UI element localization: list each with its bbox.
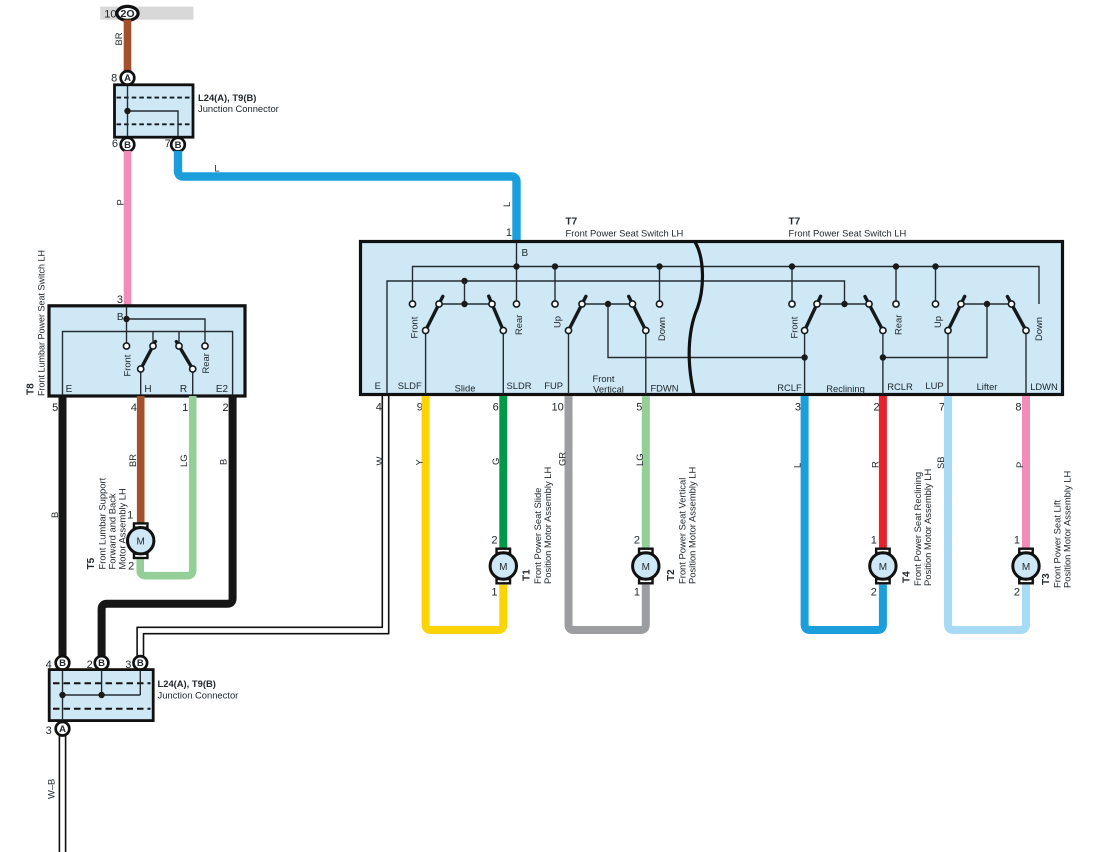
wire B entry drop (516, 243, 518, 304)
svg-text:G: G (490, 458, 501, 465)
svg-text:Front: Front (122, 354, 133, 376)
wire bus1 drops (554, 267, 556, 305)
wire B (black) T8 E2 to junction 2B (102, 396, 233, 656)
svg-text:T2: T2 (666, 569, 677, 581)
svg-text:2: 2 (634, 535, 640, 547)
svg-text:Up: Up (932, 316, 943, 328)
svg-text:FUP: FUP (544, 380, 563, 391)
svg-text:W–B: W–B (46, 779, 57, 799)
svg-text:4: 4 (131, 402, 137, 414)
wire SB (sky blue) T7 LUP to motor T3 pin 2 (948, 396, 1026, 630)
svg-text:P: P (1014, 462, 1025, 468)
switch T8 Front Lumbar Power Seat Switch LH (49, 306, 245, 396)
svg-text:Junction Connector: Junction Connector (198, 103, 279, 114)
svg-text:10: 10 (552, 402, 564, 414)
svg-text:B: B (49, 512, 60, 518)
svg-text:L: L (214, 163, 219, 174)
svg-text:RCLF: RCLF (777, 382, 802, 393)
wire rear switch left leg (178, 332, 180, 343)
svg-text:E: E (375, 380, 381, 391)
wire P (pink) from 6B to T8 pin 3 (124, 151, 132, 306)
svg-text:LG: LG (178, 454, 189, 467)
svg-text:1: 1 (506, 227, 512, 239)
svg-text:SLDF: SLDF (398, 380, 422, 391)
wire LG (light green) T7 FDWN to motor T2 pin 2 (642, 396, 650, 548)
svg-text:2O: 2O (120, 8, 134, 20)
svg-text:3: 3 (46, 725, 52, 737)
svg-text:LDWN: LDWN (1030, 381, 1058, 392)
svg-text:M: M (137, 537, 145, 548)
contact circles (123, 343, 129, 349)
svg-text:Y: Y (414, 459, 425, 466)
junction connector U1 L24(A),T9(B) (115, 85, 194, 137)
svg-text:6: 6 (493, 402, 499, 414)
switch Lifter (932, 296, 1044, 394)
svg-text:Reclining: Reclining (826, 383, 865, 394)
svg-text:6: 6 (112, 138, 118, 150)
svg-text:R: R (870, 461, 881, 468)
wire E bus E to E2 (63, 332, 233, 396)
pin 2B terminal circle (95, 656, 109, 670)
svg-text:A: A (124, 73, 131, 84)
svg-text:2: 2 (873, 402, 879, 414)
junction connector U2 L24(A),T9(B) (49, 670, 153, 721)
svg-text:3: 3 (795, 402, 801, 414)
svg-text:5: 5 (636, 402, 642, 414)
pin 4B terminal circle (56, 656, 70, 670)
svg-text:M: M (642, 562, 650, 573)
svg-text:Rear: Rear (200, 353, 211, 373)
wire BR (brown) T8 H to motor T5 pin 1 (137, 396, 145, 523)
svg-text:SLDR: SLDR (506, 380, 531, 391)
wire B entry to front contact (126, 307, 128, 343)
wire branch B to rear switch (127, 319, 206, 343)
pin A terminal circle (121, 71, 135, 85)
switch Front Vertical (552, 296, 805, 394)
wire Y (yellow) T7 SLDF to motor T1 pin 1 (426, 396, 504, 630)
svg-text:L24(A), T9(B): L24(A), T9(B) (158, 678, 216, 689)
svg-text:Down: Down (656, 317, 667, 341)
wire W (white) T7 E to junction 3B (137, 396, 389, 657)
svg-text:Lifter: Lifter (977, 381, 998, 392)
svg-text:B: B (218, 459, 229, 465)
svg-text:Front: Front (789, 316, 800, 338)
svg-text:Position Motor Assembly LH: Position Motor Assembly LH (687, 467, 698, 584)
svg-text:B: B (175, 140, 182, 151)
svg-text:2: 2 (1014, 587, 1020, 599)
connector 2O (117, 6, 138, 20)
svg-text:Position Motor Assembly LH: Position Motor Assembly LH (542, 467, 553, 584)
switch Slide (409, 296, 525, 394)
wire bus1 B feed (413, 267, 1040, 305)
svg-text:Rear: Rear (893, 315, 904, 335)
svg-text:2: 2 (491, 535, 497, 547)
svg-text:T1: T1 (522, 569, 533, 581)
svg-text:FDWN: FDWN (650, 383, 678, 394)
wire R (red) T7 RCLR to motor T4 pin 1 (879, 396, 887, 548)
motor T3 Front Power Seat Lift Position Motor (1013, 549, 1039, 584)
pin 7B terminal circle (171, 138, 185, 152)
svg-text:T7: T7 (789, 217, 801, 228)
wire W-B (white-black) from 3A down (59, 735, 65, 852)
pin 3B terminal circle (134, 656, 148, 670)
svg-text:M: M (1022, 562, 1030, 573)
bus2 dot at slide (461, 278, 467, 284)
pin 3A terminal circle (56, 722, 70, 736)
svg-text:BR: BR (113, 32, 124, 45)
svg-text:LUP: LUP (925, 380, 943, 391)
wire bus2 E feed (387, 281, 845, 394)
svg-text:SB: SB (935, 456, 946, 469)
svg-text:2: 2 (222, 402, 228, 414)
svg-text:Front Power Seat Switch LH: Front Power Seat Switch LH (566, 228, 684, 239)
svg-text:3: 3 (117, 294, 123, 306)
svg-text:Up: Up (552, 316, 563, 328)
svg-text:1: 1 (634, 587, 640, 599)
svg-text:M: M (879, 562, 887, 573)
svg-text:E2: E2 (216, 384, 229, 395)
svg-text:5: 5 (52, 402, 58, 414)
svg-text:H: H (144, 384, 151, 395)
wire L (blue) T7 RCLF to motor T4 pin 2 (805, 396, 883, 630)
svg-text:RCLR: RCLR (887, 381, 913, 392)
svg-text:L24(A), T9(B): L24(A), T9(B) (198, 92, 256, 103)
svg-text:R: R (180, 384, 187, 395)
svg-text:T7: T7 (566, 217, 578, 228)
svg-text:T3: T3 (1041, 573, 1052, 585)
wire GR (gray) T7 FUP to motor T2 pin 1 (569, 396, 646, 630)
svg-text:1: 1 (871, 535, 877, 547)
svg-text:Slide: Slide (455, 383, 476, 394)
wire L (blue) from 7B to T7 pin 1 (178, 151, 517, 243)
svg-text:A: A (59, 724, 66, 735)
svg-text:2: 2 (871, 587, 877, 599)
pin 6B terminal circle (121, 138, 135, 152)
svg-text:L: L (792, 463, 803, 468)
svg-text:GR: GR (557, 452, 568, 466)
svg-text:L: L (501, 202, 512, 207)
wire R output leg (192, 373, 194, 396)
svg-text:E: E (66, 384, 73, 395)
svg-text:Front: Front (409, 316, 420, 338)
svg-text:BR: BR (127, 454, 138, 467)
break squiggle (689, 242, 702, 394)
svg-text:B: B (98, 658, 105, 669)
svg-text:T5: T5 (86, 557, 97, 569)
motor T1 Front Power Seat Slide Position Motor (490, 549, 516, 584)
bus1 junction dots (513, 263, 519, 269)
svg-text:Motor Assembly LH: Motor Assembly LH (117, 488, 128, 569)
svg-text:Rear: Rear (513, 315, 524, 335)
motor T4 Front Power Seat Reclining Position Motor (870, 549, 896, 584)
svg-text:Position Motor Assembly LH: Position Motor Assembly LH (922, 469, 933, 586)
svg-text:B: B (522, 248, 529, 259)
svg-text:P: P (115, 199, 126, 205)
wire H output leg (140, 373, 142, 396)
svg-text:T8: T8 (26, 383, 37, 395)
wire P (pink) T7 LDWN to motor T3 pin 1 (1022, 396, 1030, 548)
svg-text:T4: T4 (902, 571, 913, 583)
svg-text:8: 8 (1015, 402, 1021, 414)
wire BR (brown) from 2O to junction connector pin 8A (124, 20, 132, 72)
switch Reclining (789, 296, 988, 394)
switch blade Rear (176, 342, 192, 369)
svg-text:1: 1 (182, 402, 188, 414)
svg-text:1: 1 (491, 587, 497, 599)
svg-text:10: 10 (104, 9, 116, 21)
svg-text:1: 1 (127, 510, 133, 522)
wire LG (light green) motor T5 pin 2 to T8 R (140, 396, 193, 576)
wire slide common drop (464, 281, 466, 304)
svg-text:1: 1 (1014, 535, 1020, 547)
switch blade Front (141, 342, 156, 370)
svg-text:Down: Down (1033, 317, 1044, 341)
node: power feed bar (100, 7, 193, 20)
motor T2 Front Power Seat Vertical Position Motor (633, 549, 659, 584)
svg-text:W: W (374, 457, 385, 466)
motor T5 Front Lumbar Support Motor (128, 523, 154, 558)
svg-text:B: B (124, 140, 131, 151)
svg-text:4: 4 (376, 402, 382, 414)
svg-text:Position Motor Assembly LH: Position Motor Assembly LH (1062, 471, 1073, 588)
switch T7 Front Power Seat Switch LH (361, 242, 1063, 395)
wire G (green) T7 SLDR to motor T1 pin 2 (499, 396, 507, 548)
wire front switch right leg (152, 332, 154, 343)
svg-text:2: 2 (128, 561, 134, 573)
svg-text:Junction Connector: Junction Connector (158, 690, 239, 701)
svg-text:M: M (499, 562, 507, 573)
svg-text:LG: LG (634, 453, 645, 466)
svg-text:8: 8 (111, 73, 117, 85)
svg-text:Front Power Seat Switch LH: Front Power Seat Switch LH (789, 228, 907, 239)
svg-text:Vertical: Vertical (593, 383, 624, 394)
wire B (black) T8 E to junction 4B (59, 396, 67, 656)
svg-text:B: B (137, 658, 144, 669)
svg-text:B: B (117, 312, 124, 323)
svg-text:B: B (59, 658, 66, 669)
svg-text:Front Lumbar Power Seat Switch: Front Lumbar Power Seat Switch LH (37, 250, 47, 396)
